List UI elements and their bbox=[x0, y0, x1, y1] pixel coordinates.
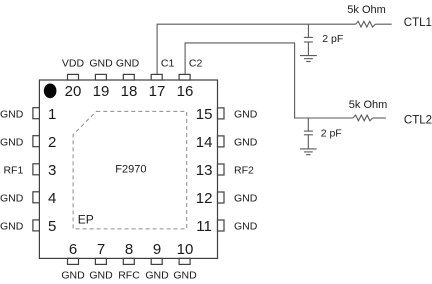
svg-text:GND: GND bbox=[173, 269, 197, 281]
svg-text:GND: GND bbox=[0, 193, 24, 205]
svg-text:13: 13 bbox=[196, 162, 213, 179]
svg-text:C2: C2 bbox=[189, 57, 203, 69]
svg-text:GND: GND bbox=[61, 269, 85, 281]
svg-text:GND: GND bbox=[0, 109, 24, 121]
svg-text:5: 5 bbox=[48, 218, 56, 235]
svg-text:20: 20 bbox=[65, 83, 82, 100]
svg-text:CTL2: CTL2 bbox=[404, 114, 432, 126]
svg-text:1: 1 bbox=[48, 106, 56, 123]
svg-text:4: 4 bbox=[48, 190, 56, 207]
svg-text:6: 6 bbox=[69, 241, 77, 258]
svg-text:GND: GND bbox=[0, 221, 24, 233]
svg-text:9: 9 bbox=[153, 241, 161, 258]
svg-text:10: 10 bbox=[177, 241, 194, 258]
svg-text:CTL1: CTL1 bbox=[404, 17, 432, 29]
svg-text:GND: GND bbox=[234, 109, 258, 121]
svg-text:19: 19 bbox=[93, 83, 110, 100]
svg-text:GND: GND bbox=[89, 269, 113, 281]
svg-text:18: 18 bbox=[121, 83, 138, 100]
svg-text:RF1: RF1 bbox=[3, 165, 23, 177]
svg-text:RF2: RF2 bbox=[234, 165, 254, 177]
svg-text:2 pF: 2 pF bbox=[322, 33, 343, 45]
svg-text:2 pF: 2 pF bbox=[321, 128, 342, 140]
svg-text:15: 15 bbox=[196, 106, 213, 123]
svg-text:17: 17 bbox=[149, 83, 166, 100]
svg-text:C1: C1 bbox=[161, 57, 175, 69]
svg-text:5k Ohm: 5k Ohm bbox=[347, 4, 386, 16]
svg-text:14: 14 bbox=[196, 134, 213, 151]
svg-text:2: 2 bbox=[48, 134, 56, 151]
svg-text:GND: GND bbox=[234, 193, 258, 205]
svg-text:GND: GND bbox=[234, 221, 258, 233]
svg-text:11: 11 bbox=[196, 218, 212, 235]
svg-text:5k Ohm: 5k Ohm bbox=[349, 99, 388, 111]
svg-text:GND: GND bbox=[145, 269, 169, 281]
svg-text:GND: GND bbox=[116, 57, 140, 69]
svg-text:12: 12 bbox=[196, 190, 213, 207]
svg-text:8: 8 bbox=[125, 241, 133, 258]
svg-text:F2970: F2970 bbox=[115, 163, 146, 175]
svg-text:GND: GND bbox=[234, 137, 258, 149]
svg-text:RFC: RFC bbox=[118, 269, 140, 281]
svg-text:VDD: VDD bbox=[62, 57, 85, 69]
svg-text:16: 16 bbox=[177, 83, 194, 100]
svg-text:3: 3 bbox=[48, 162, 56, 179]
svg-text:GND: GND bbox=[0, 137, 24, 149]
svg-text:GND: GND bbox=[89, 57, 113, 69]
svg-text:7: 7 bbox=[97, 241, 105, 258]
svg-text:EP: EP bbox=[78, 212, 94, 226]
